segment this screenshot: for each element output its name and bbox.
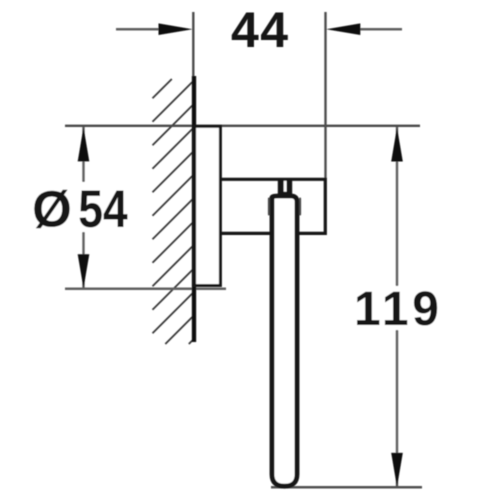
loop side bulge right	[299, 199, 301, 215]
svg-text:Ø: Ø	[32, 181, 72, 238]
dimension 44 right tail	[353, 28, 402, 31]
dimension 44 left tail	[116, 28, 166, 31]
wall hatching	[153, 79, 193, 344]
O54 bottom extension line	[65, 288, 226, 291]
119 top arrow	[391, 127, 403, 161]
119 text background	[352, 286, 442, 330]
svg-text:54: 54	[78, 180, 128, 238]
O54 top arrow	[78, 127, 90, 161]
119 dimension line	[396, 127, 398, 487]
119 bottom arrow	[391, 453, 403, 487]
loop pivot neck	[278, 180, 292, 196]
dimension 44 left arrow	[159, 23, 193, 35]
spare holder wire loop	[272, 196, 297, 486]
119 bottom extension line	[271, 486, 422, 489]
svg-text:119: 119	[354, 283, 439, 336]
shared top extension line (O54 / 119)	[65, 125, 420, 127]
loop side bulge left	[268, 199, 270, 215]
loop pivot neck slot	[284, 181, 287, 192]
O54 text background	[30, 182, 134, 232]
extension line 44 right	[324, 12, 326, 178]
svg-text:44: 44	[231, 2, 288, 58]
wall plate (O54 flange, side view)	[195, 126, 221, 285]
O54 dimension line	[82, 127, 84, 289]
extension line 44 left	[192, 12, 194, 76]
holder body	[221, 179, 326, 233]
dimension 44 right arrow	[326, 23, 360, 35]
wall line	[192, 76, 196, 342]
O54 bottom arrow	[78, 254, 90, 288]
